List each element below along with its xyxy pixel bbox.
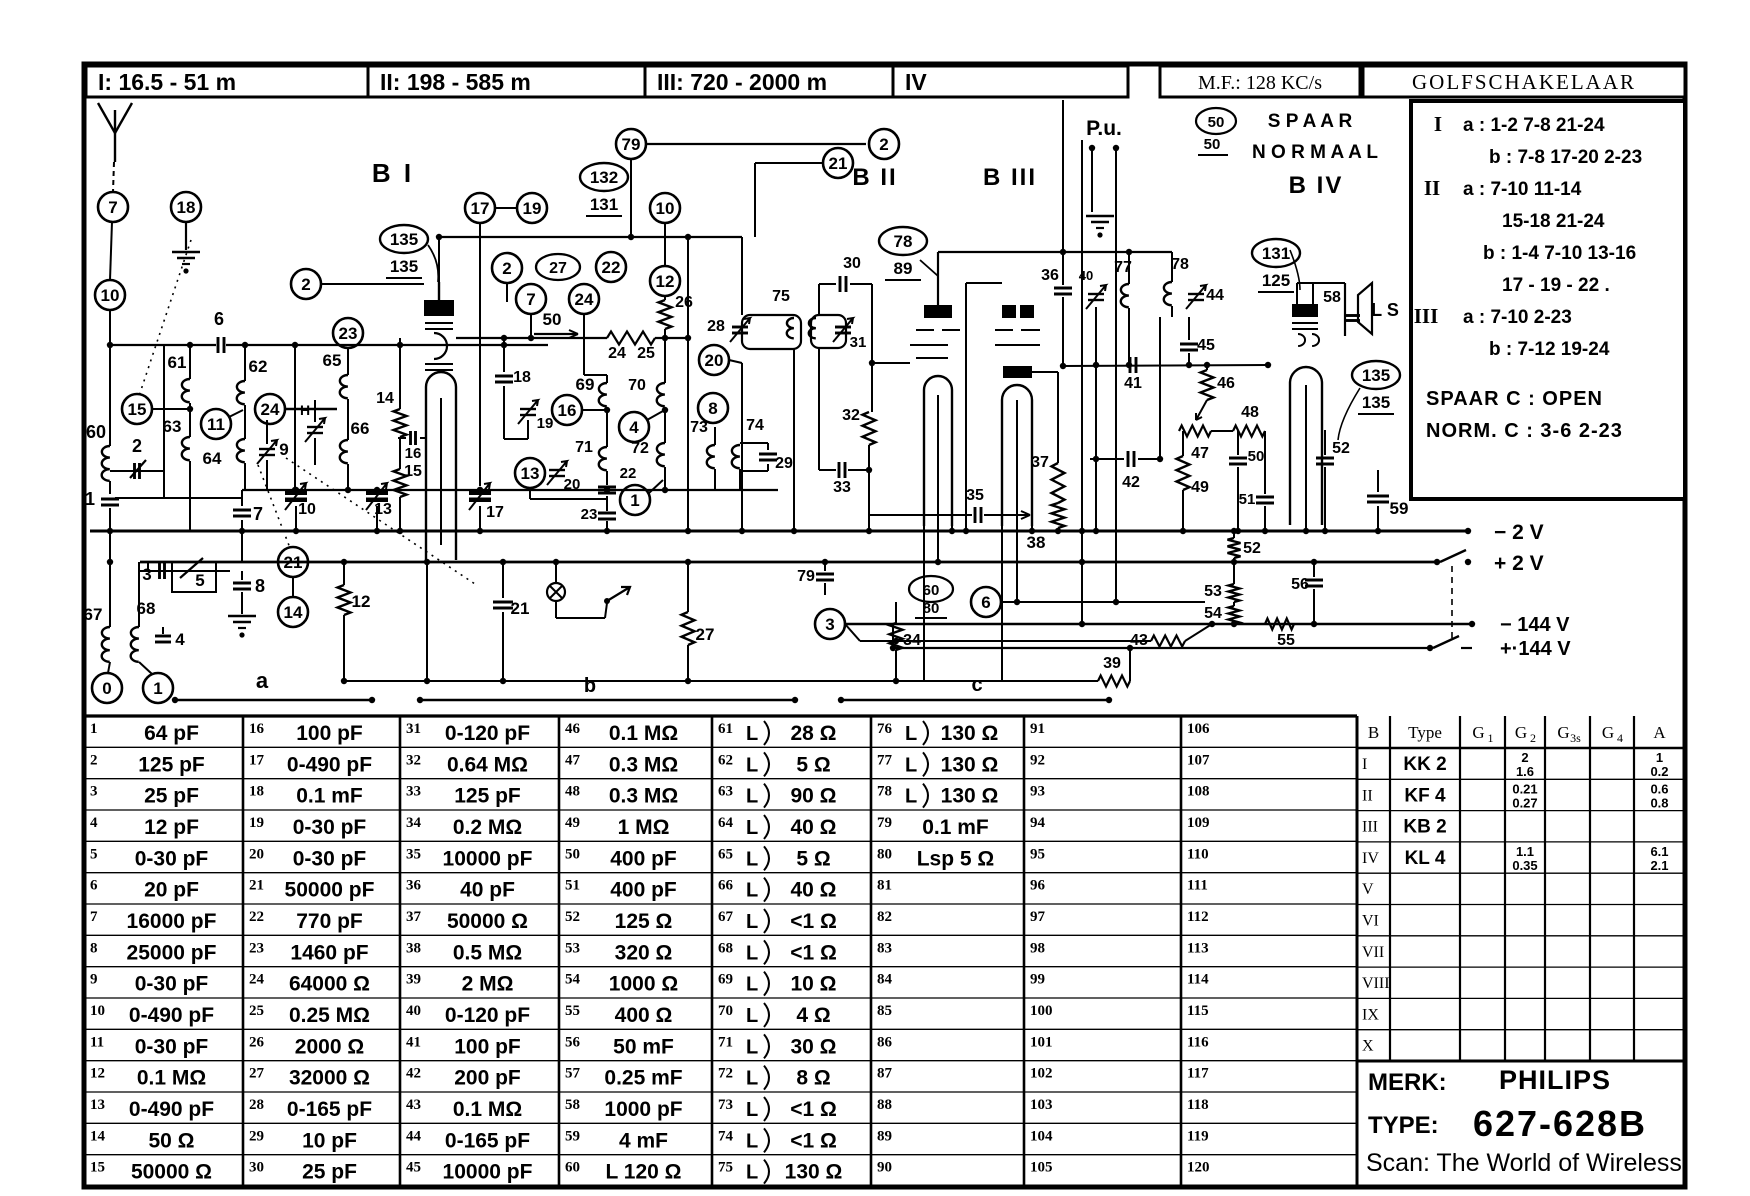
parts value table [84,714,1357,717]
node 3b [815,609,860,641]
svg-text:− 2 V: − 2 V [1494,521,1544,544]
svg-text:31: 31 [850,334,867,351]
svg-text:62: 62 [718,752,733,768]
svg-text:b : 7-8 17-20 2-23: b : 7-8 17-20 2-23 [1489,147,1642,168]
svg-text:75: 75 [718,1160,733,1176]
switch link [1451,566,1453,640]
svg-text:KB 2: KB 2 [1403,817,1446,838]
svg-text:L: L [746,786,758,808]
svg-text:51: 51 [565,878,580,894]
svg-text:46: 46 [565,721,581,737]
trimmer capacitor 11b [300,400,325,465]
svg-text:0.1 MΩ: 0.1 MΩ [609,722,678,745]
svg-text:N O R M A A L: N O R M A A L [1252,142,1378,163]
wire node18-ground [185,222,187,250]
svg-text:III: 720 - 2000 m: III: 720 - 2000 m [657,69,827,95]
capacitor 22b [598,465,636,493]
section bar c [838,674,1112,703]
loudspeaker LS [1323,283,1399,336]
svg-text:VIII: VIII [1362,975,1390,992]
svg-text:65: 65 [718,846,733,862]
svg-text:PHILIPS: PHILIPS [1499,1065,1611,1095]
svg-text:14: 14 [376,390,394,407]
svg-text:85: 85 [877,1003,892,1019]
rail -144V [845,614,1570,636]
svg-text:131: 131 [1262,244,1290,263]
svg-text:32000 Ω: 32000 Ω [289,1067,370,1090]
oval 131 [1252,239,1300,292]
node 2b [492,253,522,302]
node 8b [698,393,728,423]
trimmer 44 [1186,285,1224,309]
svg-text:31: 31 [406,721,421,737]
svg-text:0-165 pF: 0-165 pF [287,1098,372,1121]
wire [1093,307,1099,534]
svg-text:130 Ω: 130 Ω [941,753,999,776]
svg-text:89: 89 [877,1128,892,1144]
svg-text:b: b [584,675,596,697]
svg-text:G: G [1602,723,1614,742]
svg-text:17 - 19 - 22 .: 17 - 19 - 22 . [1502,275,1610,296]
tube II KF4 [910,252,960,526]
svg-text:73: 73 [690,419,708,436]
svg-text:47: 47 [1191,445,1209,462]
svg-text:L: L [746,848,758,870]
svg-text:L: L [905,723,917,745]
svg-text:7: 7 [90,909,98,925]
svg-text:18: 18 [249,784,264,800]
svg-text:47: 47 [565,752,581,768]
svg-text:100 pF: 100 pF [296,722,363,745]
svg-text:130 Ω: 130 Ω [941,722,999,745]
svg-text:0.35: 0.35 [1512,858,1537,873]
resistor 15 [394,437,423,534]
svg-text:B IV: B IV [1289,172,1344,199]
svg-text:II: 198 - 585 m: II: 198 - 585 m [380,69,531,95]
svg-text:S P A A R: S P A A R [1268,111,1353,132]
node 11 [201,409,243,439]
svg-text:6: 6 [214,309,224,329]
svg-text:36: 36 [1041,267,1059,284]
svg-text:50000 Ω: 50000 Ω [131,1161,212,1184]
svg-text:5: 5 [195,571,204,590]
svg-text:90: 90 [877,1160,892,1176]
svg-text:L: L [905,786,917,808]
trimmer 20 [547,461,580,493]
node 79 [616,129,646,159]
svg-text:0-490 pF: 0-490 pF [287,753,372,776]
svg-text:34: 34 [406,815,422,831]
svg-text:Lsp 5 Ω: Lsp 5 Ω [917,847,995,870]
svg-text:50: 50 [1204,136,1221,153]
svg-text:54: 54 [565,972,581,988]
svg-text:0.21: 0.21 [1512,781,1537,796]
label B I [372,158,414,188]
svg-text:0-30 pF: 0-30 pF [135,973,209,996]
svg-text:0.2: 0.2 [1650,764,1668,779]
svg-text:70: 70 [718,1003,733,1019]
svg-text:L S: L S [1371,300,1399,320]
svg-text:10000 pF: 10000 pF [443,847,533,870]
svg-text:61: 61 [168,353,187,372]
svg-text:5: 5 [90,846,98,862]
svg-text:B: B [1368,723,1379,742]
svg-text:1 MΩ: 1 MΩ [618,816,670,839]
svg-text:22: 22 [602,258,621,277]
svg-text:71: 71 [575,439,593,456]
svg-text:59: 59 [565,1128,580,1144]
svg-text:115: 115 [1187,1003,1209,1019]
svg-text:L: L [746,754,758,776]
svg-text:74: 74 [746,417,764,434]
oval 78 [879,227,938,280]
svg-text:40: 40 [406,1003,421,1019]
coil 69 [576,375,607,447]
node 4b [619,407,668,442]
svg-text:I: 16.5 - 51 m: I: 16.5 - 51 m [98,69,236,95]
svg-text:2: 2 [301,275,310,294]
svg-text:I: I [1434,112,1442,136]
node 24b [569,284,607,375]
svg-text:25 pF: 25 pF [302,1161,357,1184]
svg-text:64: 64 [203,449,222,468]
svg-text:10000 pF: 10000 pF [443,1161,533,1184]
svg-text:11: 11 [207,415,225,434]
svg-text:2: 2 [1521,750,1528,765]
svg-text:105: 105 [1030,1160,1053,1176]
coil 66 [340,399,370,490]
node 23 [333,318,363,348]
svg-text:7: 7 [526,290,535,309]
svg-text:44: 44 [1206,287,1224,304]
svg-text:58: 58 [1323,289,1341,306]
capacitor 30 [819,255,875,366]
svg-text:25: 25 [637,345,655,362]
svg-text:27: 27 [696,625,715,644]
svg-text:66: 66 [351,419,370,438]
svg-text:110: 110 [1187,846,1209,862]
svg-text:40 Ω: 40 Ω [790,879,836,902]
resistor 54 [1204,602,1239,627]
svg-text:0.1 MΩ: 0.1 MΩ [453,1098,522,1121]
svg-text:63: 63 [163,417,182,436]
wire [115,471,242,498]
svg-text:18: 18 [513,369,531,386]
svg-text:25: 25 [249,1003,264,1019]
svg-text:2: 2 [1530,731,1536,745]
svg-text:109: 109 [1187,815,1210,831]
svg-text:30: 30 [249,1160,264,1176]
svg-text:II: II [1362,787,1373,804]
svg-text:SPAAR C : OPEN: SPAAR C : OPEN [1426,388,1603,410]
svg-text:1: 1 [630,491,639,510]
svg-text:52: 52 [1243,540,1261,557]
svg-text:320 Ω: 320 Ω [615,941,673,964]
capacitor 18 [495,338,531,439]
svg-text:64 pF: 64 pF [144,722,199,745]
svg-text:4: 4 [629,418,639,437]
svg-text:52: 52 [565,909,580,925]
svg-text:118: 118 [1187,1097,1209,1113]
node 21c [755,148,853,237]
svg-text:78: 78 [1171,256,1189,273]
svg-text:2: 2 [879,135,888,154]
svg-text:69: 69 [718,972,733,988]
svg-text:2: 2 [502,259,511,278]
svg-text:4: 4 [175,630,185,649]
svg-text:7: 7 [253,504,263,524]
svg-text:17: 17 [486,504,504,521]
svg-text:III: III [1414,304,1439,328]
trimmer 40 [1079,268,1106,309]
label 50 underlined [534,310,578,338]
trimmer 19 [518,400,553,439]
svg-text:91: 91 [1030,721,1045,737]
node 1c [620,480,663,515]
svg-text:125: 125 [1262,271,1290,290]
svg-text:0: 0 [102,679,111,698]
svg-text:112: 112 [1187,909,1209,925]
wire cathode leg [424,559,430,681]
svg-text:0-490 pF: 0-490 pF [129,1098,214,1121]
capacitor 45 [1180,317,1215,365]
label B IV [1289,172,1344,199]
wire anode row [456,335,607,341]
wire [479,223,481,486]
svg-text:86: 86 [877,1034,893,1050]
node 24 [255,394,337,424]
svg-text:19: 19 [523,199,542,218]
svg-text:81: 81 [877,878,892,894]
svg-text:0.25 MΩ: 0.25 MΩ [289,1004,370,1027]
svg-text:23: 23 [339,324,358,343]
svg-text:97: 97 [1030,909,1046,925]
svg-text:GOLFSCHAKELAAR: GOLFSCHAKELAAR [1412,70,1636,94]
coil 74 [732,417,768,490]
svg-text:17: 17 [471,199,490,218]
svg-text:Scan: The World of Wireless: Scan: The World of Wireless [1366,1149,1682,1177]
node 12b [650,223,680,296]
svg-text:75: 75 [772,288,790,305]
svg-text:20: 20 [564,476,581,493]
svg-text:80: 80 [923,600,940,617]
svg-text:71: 71 [718,1034,733,1050]
svg-text:2: 2 [90,752,98,768]
svg-text:53: 53 [565,940,580,956]
svg-text:+ 2 V: + 2 V [1494,552,1544,575]
svg-text:79: 79 [877,815,892,831]
svg-text:33: 33 [833,479,851,496]
svg-text:19: 19 [249,815,264,831]
svg-text:117: 117 [1187,1066,1209,1082]
svg-text:L: L [746,1099,758,1121]
wire node10 down [109,310,111,446]
svg-text:6: 6 [90,878,98,894]
node 7 [98,192,128,222]
svg-text:40 Ω: 40 Ω [790,816,836,839]
svg-text:83: 83 [877,940,892,956]
svg-text:12 pF: 12 pF [144,816,199,839]
rail -2V [90,521,1544,544]
wire [109,481,111,494]
svg-text:1: 1 [1488,731,1494,745]
svg-text:0.1 MΩ: 0.1 MΩ [137,1067,206,1090]
svg-text:94: 94 [1030,815,1046,831]
svg-text:125 pF: 125 pF [454,785,521,808]
node 22b [596,252,626,282]
svg-text:28 Ω: 28 Ω [790,722,836,745]
svg-text:4: 4 [90,815,98,831]
svg-text:<1 Ω: <1 Ω [790,941,837,964]
svg-text:62: 62 [249,357,268,376]
svg-text:69: 69 [576,375,595,394]
svg-text:L: L [746,1068,758,1090]
svg-text:15-18 21-24: 15-18 21-24 [1502,211,1605,232]
svg-text:42: 42 [1122,474,1140,491]
svg-text:0.64 MΩ: 0.64 MΩ [447,753,528,776]
svg-text:33: 33 [406,784,421,800]
label NORMAAL [1252,142,1378,163]
svg-text:25 pF: 25 pF [144,785,199,808]
capacitor 51 [1239,431,1274,534]
resistor 48 [1211,404,1265,437]
svg-text:4 mF: 4 mF [619,1129,668,1152]
svg-text:37: 37 [1031,454,1049,471]
svg-text:400 pF: 400 pF [610,879,677,902]
svg-text:0.2 MΩ: 0.2 MΩ [453,816,522,839]
node 1 [143,673,173,703]
svg-text:627-628B: 627-628B [1473,1103,1647,1144]
svg-text:Type: Type [1408,723,1442,742]
svg-text:8: 8 [90,940,98,956]
potentiometer 47 [1179,426,1211,463]
capacitor 56 [1291,559,1323,627]
label P.u. [1086,117,1122,140]
svg-text:G: G [1557,723,1569,742]
svg-text:16000 pF: 16000 pF [127,910,217,933]
svg-text:40: 40 [1079,268,1093,283]
oval 135 [380,225,438,282]
wire [163,345,165,471]
IF1 secondary coil 76 [809,315,846,470]
svg-text:III: III [1362,819,1378,836]
tube IV KL4 [1290,367,1322,534]
node 13b [515,458,545,488]
node 21 [278,547,308,577]
svg-text:L: L [746,817,758,839]
svg-text:0-120 pF: 0-120 pF [445,1004,530,1027]
svg-text:VI: VI [1362,913,1379,930]
svg-text:27: 27 [249,1066,265,1082]
svg-text:114: 114 [1187,972,1209,988]
coil 64 [203,405,245,490]
wire top link [646,143,866,145]
svg-text:125 Ω: 125 Ω [615,910,673,933]
svg-text:24: 24 [608,345,626,362]
resistor 26 [659,294,694,338]
capacitor 33 [819,462,869,496]
svg-text:64000 Ω: 64000 Ω [289,973,370,996]
svg-text:0.1 mF: 0.1 mF [296,785,363,808]
ground [228,616,256,638]
svg-text:3s: 3s [1570,731,1581,745]
svg-text:32: 32 [842,407,860,424]
capacitor 36 [1041,255,1072,369]
svg-text:35: 35 [966,487,984,504]
svg-text:<1 Ω: <1 Ω [790,1129,837,1152]
node 2 [291,269,424,299]
svg-text:c: c [971,674,982,696]
svg-text:67: 67 [84,605,103,624]
coil 73 [690,419,715,490]
svg-text:50: 50 [543,310,562,329]
coil 70 [628,338,665,406]
svg-text:106: 106 [1187,721,1210,737]
resistor 14 [376,338,406,437]
svg-text:50: 50 [1248,448,1265,465]
svg-text:57: 57 [565,1066,581,1082]
svg-text:119: 119 [1187,1128,1209,1144]
svg-text:36: 36 [406,878,422,894]
svg-text:2.1: 2.1 [1650,858,1668,873]
svg-text:5 Ω: 5 Ω [796,753,830,776]
svg-text:L: L [746,880,758,902]
capacitor 7 [233,490,263,562]
svg-text:101: 101 [1030,1034,1053,1050]
svg-text:72: 72 [718,1066,733,1082]
svg-text:G: G [1515,723,1527,742]
svg-text:L: L [746,1036,758,1058]
tube I KK2 [424,282,456,560]
svg-text:56: 56 [565,1034,581,1050]
svg-text:0-165 pF: 0-165 pF [445,1129,530,1152]
switch contact info box [1411,101,1685,499]
svg-text:79: 79 [797,568,815,585]
svg-text:24: 24 [575,290,594,309]
svg-text:IV: IV [1362,850,1379,867]
capacitor 3 [142,563,164,584]
resistor 24/25 [607,332,691,363]
svg-text:44: 44 [406,1128,422,1144]
trimmer 31 [833,318,866,351]
svg-text:96: 96 [1030,878,1046,894]
svg-text:108: 108 [1187,784,1210,800]
wire tank top [107,342,548,348]
variable capacitor 17 [469,483,504,534]
capacitor 6 [214,309,224,353]
svg-text:120: 120 [1187,1160,1210,1176]
potentiometer 38 [1027,503,1065,552]
svg-text:8: 8 [708,399,717,418]
svg-text:10 pF: 10 pF [302,1129,357,1152]
ground [172,252,200,274]
svg-text:NORM. C : 3-6 2-23: NORM. C : 3-6 2-23 [1426,420,1623,442]
svg-text:3: 3 [825,615,834,634]
svg-text:II: II [1424,176,1440,200]
svg-text:12: 12 [352,592,371,611]
wire bus 641 [860,638,1151,644]
gang dotted line tuning [286,458,475,584]
capacitor 5 trimmer [172,558,216,592]
svg-text:16: 16 [558,401,577,420]
node 6b [971,587,1205,617]
svg-text:11: 11 [90,1034,104,1050]
svg-text:78: 78 [894,232,913,251]
node 10 [95,280,125,310]
svg-text:1.1: 1.1 [1516,844,1534,859]
rail +2V [140,550,1544,575]
svg-text:0-30 pF: 0-30 pF [293,847,367,870]
